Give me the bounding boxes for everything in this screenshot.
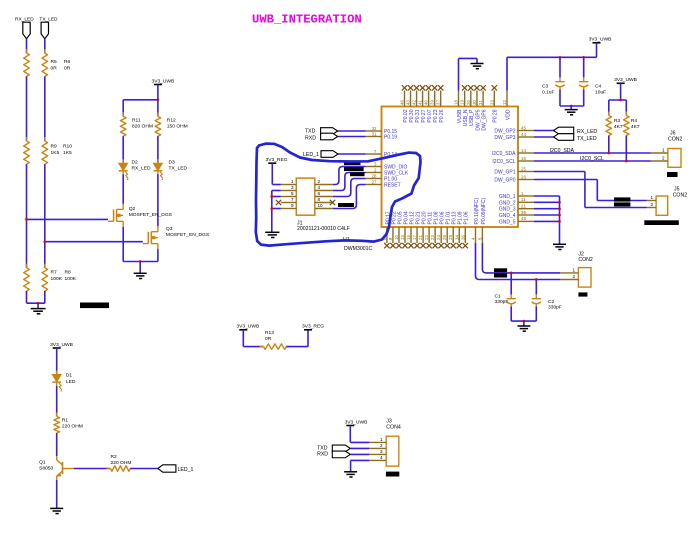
svg-text:P1.06: P1.06: [464, 211, 470, 224]
svg-text:S8050: S8050: [39, 466, 53, 472]
svg-text:8: 8: [318, 197, 321, 202]
svg-text:TX_LED: TX_LED: [169, 166, 188, 172]
svg-text:15: 15: [521, 156, 526, 161]
svg-text:0.1uF: 0.1uF: [542, 89, 555, 95]
svg-text:2: 2: [318, 179, 321, 184]
svg-text:1K5: 1K5: [51, 150, 60, 156]
svg-text:45: 45: [521, 125, 526, 130]
svg-text:R6: R6: [64, 59, 71, 65]
svg-text:D3: D3: [169, 160, 176, 166]
svg-text:26: 26: [442, 235, 447, 240]
svg-text:TXD: TXD: [305, 129, 316, 135]
svg-text:820 OHM: 820 OHM: [132, 124, 153, 130]
svg-text:Q2: Q2: [129, 206, 136, 212]
svg-text:29: 29: [448, 235, 453, 240]
svg-text:3V3_UWB: 3V3_UWB: [614, 77, 637, 83]
svg-text:0R: 0R: [51, 66, 58, 72]
svg-text:DW_GP0: DW_GP0: [494, 178, 515, 184]
svg-text:UWB_INTEGRATION: UWB_INTEGRATION: [252, 13, 362, 27]
svg-text:CON2: CON2: [668, 137, 683, 143]
svg-text:20: 20: [466, 100, 471, 105]
svg-text:41: 41: [418, 100, 423, 105]
svg-text:I2C0_SDA: I2C0_SDA: [550, 148, 575, 154]
svg-text:R7: R7: [51, 270, 58, 276]
svg-text:RX_LED: RX_LED: [132, 166, 151, 172]
svg-text:C2: C2: [548, 299, 555, 305]
svg-text:3: 3: [291, 185, 294, 190]
svg-text:D1: D1: [66, 373, 73, 379]
svg-text:4K7: 4K7: [614, 124, 623, 130]
svg-text:3V3_UWB: 3V3_UWB: [236, 324, 259, 330]
svg-text:10: 10: [394, 235, 399, 240]
svg-text:1K5: 1K5: [63, 150, 72, 156]
svg-text:1: 1: [662, 148, 665, 153]
svg-text:DW_GP5: DW_GP5: [475, 109, 481, 130]
svg-text:48: 48: [521, 216, 526, 221]
svg-text:I2C0_SCL: I2C0_SCL: [492, 159, 515, 165]
svg-text:P0.26: P0.26: [439, 109, 445, 122]
svg-text:7: 7: [291, 197, 294, 202]
svg-text:22: 22: [424, 235, 429, 240]
svg-text:C3: C3: [542, 84, 549, 90]
svg-text:3V3_UWB: 3V3_UWB: [589, 37, 612, 43]
svg-text:4: 4: [318, 185, 321, 190]
svg-text:2: 2: [380, 443, 383, 448]
svg-text:9: 9: [291, 203, 294, 208]
svg-text:P0.09(NFC): P0.09(NFC): [481, 197, 487, 224]
svg-text:R11: R11: [132, 117, 141, 123]
svg-text:39: 39: [430, 100, 435, 105]
svg-text:33: 33: [489, 100, 494, 105]
svg-text:43: 43: [406, 100, 411, 105]
svg-text:I2C0_SDA: I2C0_SDA: [492, 151, 516, 157]
svg-text:LED_1: LED_1: [178, 467, 194, 473]
svg-text:100K: 100K: [65, 276, 77, 282]
svg-text:CON2: CON2: [673, 192, 688, 198]
svg-text:2: 2: [650, 202, 653, 207]
svg-text:25: 25: [521, 166, 526, 171]
svg-text:DW_GP3: DW_GP3: [494, 135, 515, 141]
svg-text:31: 31: [372, 131, 377, 136]
svg-text:32: 32: [372, 126, 377, 131]
svg-text:23: 23: [430, 235, 435, 240]
svg-text:R5: R5: [51, 59, 58, 65]
svg-text:RESET: RESET: [384, 183, 401, 189]
svg-text:0R: 0R: [265, 336, 272, 342]
svg-text:P0.19: P0.19: [384, 135, 397, 141]
svg-text:RXD: RXD: [317, 451, 328, 457]
svg-text:GND_2: GND_2: [499, 200, 516, 206]
svg-text:VDD: VDD: [505, 109, 511, 120]
svg-text:16: 16: [406, 235, 411, 240]
svg-text:37: 37: [436, 100, 441, 105]
svg-text:R1: R1: [62, 418, 69, 424]
svg-text:0R: 0R: [64, 66, 71, 72]
svg-text:10uF: 10uF: [595, 89, 606, 95]
svg-text:Q3: Q3: [166, 226, 173, 232]
svg-text:13: 13: [400, 235, 405, 240]
svg-text:30: 30: [472, 100, 477, 105]
svg-text:18: 18: [454, 100, 459, 105]
svg-text:Q1: Q1: [39, 460, 46, 466]
svg-text:R2: R2: [111, 454, 118, 460]
svg-text:R12: R12: [167, 117, 176, 123]
svg-text:24: 24: [436, 235, 441, 240]
svg-text:P0.28: P0.28: [493, 109, 499, 122]
svg-text:3V3_UWB: 3V3_UWB: [345, 419, 368, 425]
svg-text:150 OHM: 150 OHM: [167, 124, 188, 130]
svg-text:DW_GP1: DW_GP1: [494, 170, 515, 176]
svg-text:28: 28: [372, 173, 377, 178]
svg-text:26: 26: [521, 174, 526, 179]
svg-text:C4: C4: [595, 84, 602, 90]
svg-text:3V3_UWB: 3V3_UWB: [151, 78, 174, 84]
svg-text:R9: R9: [51, 144, 58, 150]
svg-text:220 OHM: 220 OHM: [111, 460, 132, 466]
svg-text:330pF: 330pF: [495, 299, 509, 305]
svg-text:21: 21: [418, 235, 423, 240]
svg-text:4: 4: [380, 455, 383, 460]
svg-text:USB_N: USB_N: [463, 109, 469, 126]
svg-text:2: 2: [662, 156, 665, 161]
svg-text:40: 40: [424, 100, 429, 105]
svg-text:USB_P: USB_P: [469, 109, 475, 126]
svg-text:3V3_REG: 3V3_REG: [302, 324, 324, 330]
svg-text:21: 21: [521, 204, 526, 209]
svg-text:3V3_UWB: 3V3_UWB: [50, 342, 73, 348]
svg-text:2: 2: [572, 274, 575, 279]
svg-text:LED: LED: [66, 379, 76, 385]
svg-text:34: 34: [454, 235, 459, 240]
svg-text:P0.10(NFC): P0.10(NFC): [474, 197, 480, 224]
svg-text:39: 39: [521, 210, 526, 215]
svg-text:1: 1: [572, 267, 575, 272]
svg-text:RX_LED: RX_LED: [577, 129, 597, 135]
svg-text:GND_3: GND_3: [499, 207, 516, 213]
svg-text:27: 27: [372, 179, 377, 184]
svg-text:3V3_REG: 3V3_REG: [265, 157, 287, 163]
svg-text:LED_1: LED_1: [303, 152, 319, 158]
svg-text:12: 12: [502, 100, 507, 105]
svg-text:R4: R4: [631, 118, 638, 124]
svg-text:RXD: RXD: [305, 136, 316, 142]
svg-text:20021121-00010 C4LF: 20021121-00010 C4LF: [297, 226, 350, 232]
svg-text:DW_GP6: DW_GP6: [482, 109, 488, 130]
svg-text:14: 14: [521, 148, 526, 153]
svg-text:R10: R10: [63, 144, 72, 150]
svg-text:R13: R13: [265, 330, 274, 336]
svg-text:1: 1: [650, 195, 653, 200]
svg-text:36: 36: [460, 235, 465, 240]
svg-text:MOSFET_EN_DGS: MOSFET_EN_DGS: [166, 232, 210, 238]
svg-text:17: 17: [412, 235, 417, 240]
svg-text:31: 31: [478, 100, 483, 105]
svg-text:CON2: CON2: [578, 257, 593, 263]
svg-text:TX_LED: TX_LED: [577, 136, 597, 142]
svg-text:3: 3: [380, 449, 383, 454]
svg-text:C1: C1: [495, 293, 502, 299]
svg-text:6: 6: [318, 191, 321, 196]
svg-text:330pF: 330pF: [548, 304, 562, 310]
svg-text:1: 1: [291, 179, 294, 184]
svg-text:46: 46: [400, 100, 405, 105]
svg-text:11: 11: [521, 197, 526, 202]
svg-text:VUSB: VUSB: [457, 109, 463, 123]
svg-text:D2: D2: [132, 160, 139, 166]
svg-text:GND_5: GND_5: [499, 219, 516, 225]
svg-text:220 OHM: 220 OHM: [62, 424, 83, 430]
svg-text:I2C0_SCL: I2C0_SCL: [580, 156, 604, 162]
svg-text:5: 5: [291, 191, 294, 196]
svg-text:44: 44: [521, 132, 526, 137]
svg-text:DWM3001C: DWM3001C: [344, 246, 373, 252]
svg-text:MOSFET_EN_DGS: MOSFET_EN_DGS: [129, 212, 173, 218]
svg-text:19: 19: [460, 100, 465, 105]
svg-text:R8: R8: [65, 270, 72, 276]
svg-text:CON4: CON4: [386, 424, 401, 430]
svg-text:100K: 100K: [51, 276, 63, 282]
svg-text:GND_1: GND_1: [499, 194, 516, 200]
svg-text:GND_4: GND_4: [499, 213, 516, 219]
svg-text:R3: R3: [614, 118, 621, 124]
svg-text:4K7: 4K7: [631, 124, 640, 130]
svg-text:DW_GP2: DW_GP2: [494, 129, 515, 135]
svg-text:10: 10: [318, 203, 324, 208]
svg-text:1: 1: [380, 437, 383, 442]
svg-text:42: 42: [412, 100, 417, 105]
